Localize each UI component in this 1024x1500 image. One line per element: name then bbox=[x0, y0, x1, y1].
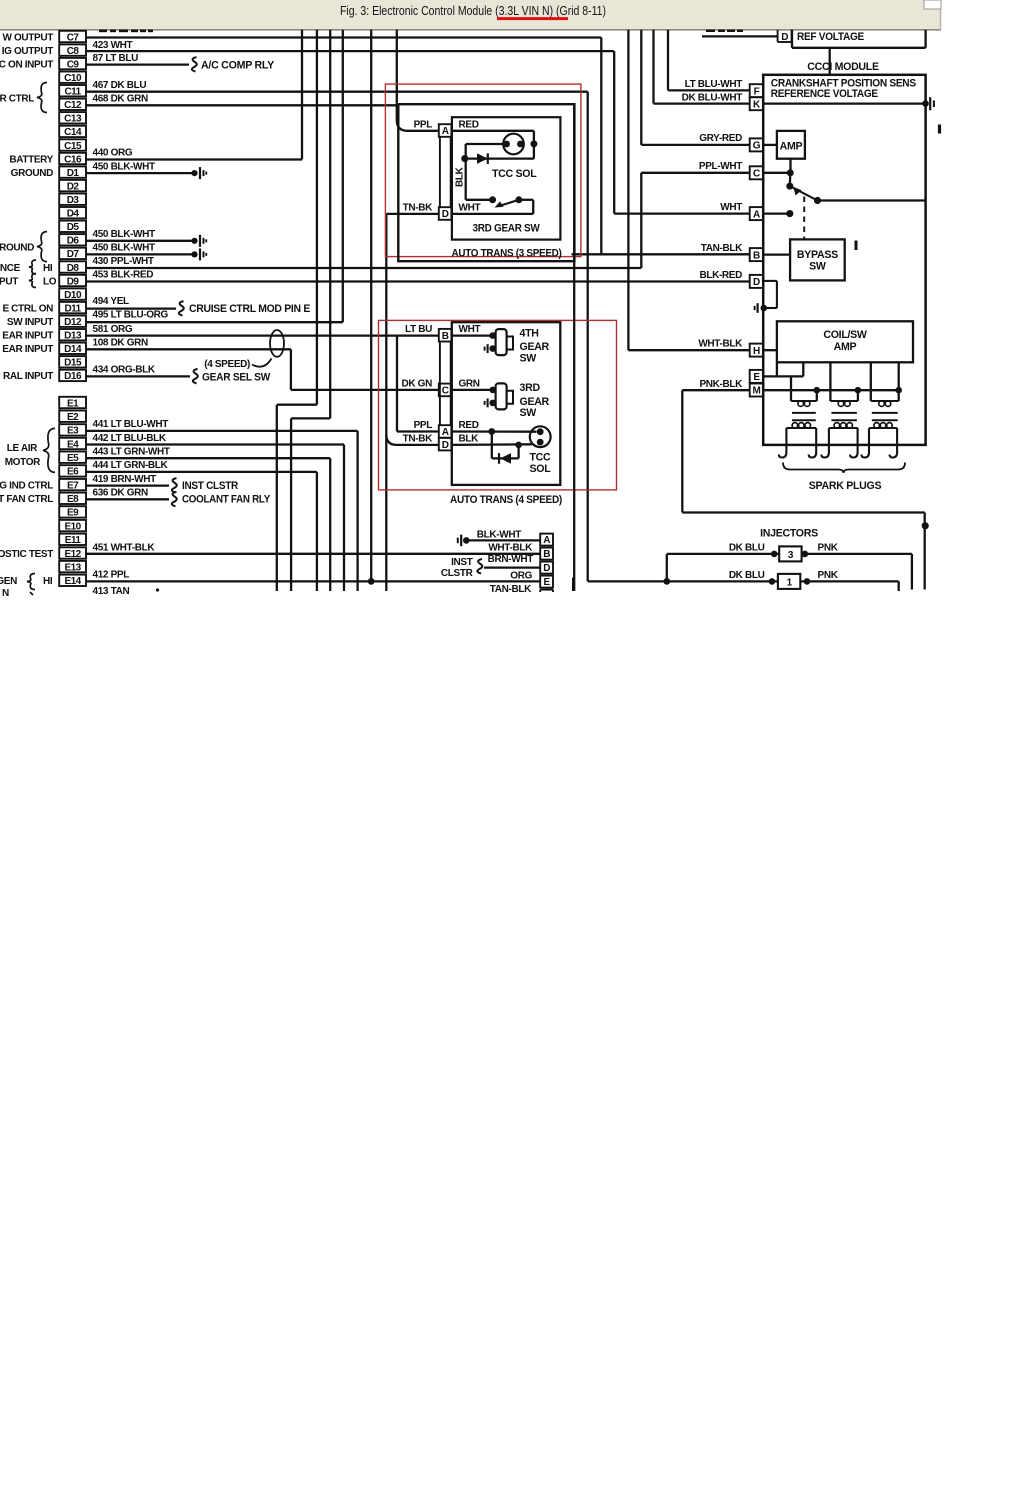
svg-text:RAL INPUT: RAL INPUT bbox=[3, 371, 53, 382]
svg-text:C10: C10 bbox=[64, 73, 82, 84]
pin E wire + tab under coil amp bbox=[763, 375, 803, 377]
vertical x682.3 injector feed bbox=[681, 390, 683, 512]
TCC SOL terminals bbox=[503, 141, 510, 148]
svg-text:B: B bbox=[753, 250, 760, 261]
vertical x276.8 lower bbox=[276, 405, 278, 591]
svg-text:TN-BK: TN-BK bbox=[403, 434, 433, 445]
svg-text:C12: C12 bbox=[64, 100, 82, 111]
svg-text:WHT-BLK: WHT-BLK bbox=[488, 543, 533, 554]
bottom-cut brace fragment bbox=[30, 592, 33, 595]
long vertical x371.2 top to E14 splice bbox=[370, 30, 372, 582]
switch arm to right contact bbox=[790, 186, 818, 200]
coil 2 core lines bbox=[831, 412, 857, 414]
ECM connector pin E3 bbox=[59, 424, 86, 435]
pin D box (4 speed) bbox=[439, 438, 452, 451]
wire vertical x342.8 (to top cut) bbox=[342, 30, 344, 322]
wire TAN-BLK into CCCI pin B bbox=[572, 253, 750, 255]
vertical x641.3 GRY-RED from top bbox=[640, 30, 642, 145]
wire WHT into CCCI pin A bbox=[614, 212, 750, 214]
svg-text:C11: C11 bbox=[64, 87, 81, 98]
svg-text:E4: E4 bbox=[67, 439, 79, 450]
svg-text:E9: E9 bbox=[67, 508, 79, 519]
pin B box (4 speed) bbox=[439, 329, 452, 342]
ECM connector pin D16 bbox=[59, 370, 86, 381]
ECM connector pin D10 bbox=[59, 288, 86, 299]
svg-text:PPL-WHT: PPL-WHT bbox=[699, 161, 742, 172]
svg-text:TAN-BLK: TAN-BLK bbox=[490, 584, 532, 595]
connector outline tick bbox=[59, 124, 61, 126]
connector outline tick bbox=[59, 477, 61, 479]
connector outline tick bbox=[59, 449, 61, 451]
diode (4 speed, pointing left) bbox=[500, 453, 511, 464]
svg-text:REF VOLTAGE: REF VOLTAGE bbox=[797, 31, 864, 43]
svg-text:R CTRL: R CTRL bbox=[0, 93, 34, 104]
svg-text:WHT-BLK: WHT-BLK bbox=[698, 339, 743, 350]
ECM connector pin D4 bbox=[59, 207, 86, 218]
pin H box bbox=[750, 344, 763, 357]
svg-text:D5: D5 bbox=[67, 222, 80, 233]
svg-text:BLK-WHT: BLK-WHT bbox=[477, 529, 521, 540]
connector outline tick bbox=[59, 137, 61, 139]
connector outline tick bbox=[59, 504, 61, 506]
svg-text:M: M bbox=[752, 386, 760, 397]
coil 3 spark plug wires bbox=[868, 428, 870, 445]
svg-text:BATTERY: BATTERY bbox=[9, 154, 53, 165]
svg-text:SW: SW bbox=[520, 352, 537, 364]
coil 2 secondary winding bbox=[829, 427, 858, 429]
injector 1 wire bbox=[588, 580, 778, 582]
svg-text:COIL/SW: COIL/SW bbox=[823, 329, 867, 341]
svg-text:LE AIR: LE AIR bbox=[7, 443, 38, 454]
svg-text:F: F bbox=[754, 86, 760, 97]
svg-text:C14: C14 bbox=[64, 127, 82, 138]
3rd gear switch symbol (4 speed) bbox=[489, 387, 496, 394]
svg-text:D3: D3 bbox=[67, 195, 80, 206]
connector outline tick bbox=[59, 178, 61, 180]
svg-text:RED: RED bbox=[459, 420, 479, 431]
connector outline tick bbox=[59, 110, 61, 112]
ECM connector pin D7 bbox=[59, 248, 86, 259]
ECM connector pin D8 bbox=[59, 261, 86, 272]
svg-text:GEAR: GEAR bbox=[520, 396, 550, 408]
svg-text:HI: HI bbox=[43, 576, 53, 587]
BYPASS SW box bbox=[790, 239, 845, 280]
ECM connector pin E7 bbox=[59, 479, 86, 490]
svg-text:BYPASS: BYPASS bbox=[797, 249, 838, 261]
svg-text:467 DK BLU: 467 DK BLU bbox=[93, 80, 147, 91]
ground at pin D jog bbox=[761, 305, 768, 312]
wire TN-BK into pin D (3 speed) bbox=[386, 213, 439, 215]
injector 3 right drop bbox=[911, 554, 913, 590]
ECM connector pin E12 bbox=[59, 547, 86, 558]
spark plugs brace bbox=[783, 463, 905, 474]
svg-text:D2: D2 bbox=[67, 181, 80, 192]
ECM connector pin C9 bbox=[59, 58, 86, 69]
title bar bbox=[0, 0, 941, 30]
svg-text:E10: E10 bbox=[64, 521, 81, 532]
wire G to AMP bbox=[763, 144, 777, 146]
TCC SOL circle (4 speed) bbox=[530, 426, 551, 447]
svg-text:453 BLK-RED: 453 BLK-RED bbox=[93, 270, 154, 281]
vertical x397 LT BU tee down to PPL bbox=[396, 336, 398, 432]
svg-text:COOLANT FAN RLY: COOLANT FAN RLY bbox=[182, 494, 270, 506]
long vertical x628.4 -> pin H bbox=[627, 30, 629, 350]
jog horizontal y404.7 bbox=[277, 404, 317, 406]
inst clstr pin D box bbox=[540, 562, 553, 574]
ECM connector pin E4 bbox=[59, 438, 86, 449]
svg-text:B: B bbox=[543, 549, 550, 560]
REF VOLTAGE module box (cut at top) bbox=[791, 30, 793, 48]
svg-text:BLK: BLK bbox=[455, 166, 466, 187]
wire pin A to terminal dot bbox=[763, 212, 790, 214]
svg-text:CCCI MODULE: CCCI MODULE bbox=[807, 61, 879, 73]
svg-text:GRN: GRN bbox=[459, 378, 480, 389]
wire vertical x641 PPL-WHT bbox=[640, 173, 642, 268]
pin K box bbox=[750, 97, 763, 110]
diode (3 speed) bbox=[477, 153, 488, 164]
svg-text:E14: E14 bbox=[64, 576, 81, 587]
cut-off label fragment near REF VOLTAGE bbox=[706, 30, 715, 32]
svg-text:450 BLK-WHT: 450 BLK-WHT bbox=[93, 242, 156, 253]
CCCI module box bbox=[763, 75, 925, 445]
svg-text:AUTO TRANS (3 SPEED): AUTO TRANS (3 SPEED) bbox=[452, 247, 562, 259]
svg-text:D10: D10 bbox=[64, 290, 82, 301]
link to switch pivot bbox=[789, 173, 792, 186]
connector outline tick bbox=[59, 422, 61, 424]
curve branch into 4-speed pin D bbox=[386, 435, 439, 445]
connector outline tick bbox=[59, 83, 61, 85]
junction dot left (3 speed) bbox=[461, 155, 468, 162]
svg-text:C16: C16 bbox=[64, 154, 82, 165]
connector outline tick bbox=[59, 191, 61, 193]
3rd gear switch row bbox=[466, 199, 493, 201]
ECM connector pin C8 bbox=[59, 44, 86, 55]
svg-text:GRY-RED: GRY-RED bbox=[699, 133, 742, 144]
coil 3 secondary winding bbox=[869, 427, 897, 429]
vertical x668 LT BLU-WHT from top bbox=[667, 30, 669, 91]
svg-text:ORG: ORG bbox=[510, 570, 532, 581]
svg-text:C8: C8 bbox=[67, 46, 80, 57]
svg-text:D8: D8 bbox=[67, 263, 80, 274]
svg-text:D: D bbox=[781, 32, 788, 43]
svg-text:3RD: 3RD bbox=[520, 382, 541, 394]
svg-text:D7: D7 bbox=[67, 249, 80, 260]
svg-text:A: A bbox=[543, 535, 550, 546]
switch arm with arrowhead bbox=[500, 200, 519, 206]
pin A box (3 speed) bbox=[439, 124, 452, 137]
svg-text:581 ORG: 581 ORG bbox=[93, 324, 133, 335]
svg-text:DK BLU: DK BLU bbox=[729, 570, 765, 581]
svg-text:D12: D12 bbox=[64, 317, 82, 328]
svg-text:HI: HI bbox=[43, 263, 53, 274]
dashed link to BYPASS SW bbox=[803, 197, 805, 240]
connector outline tick bbox=[59, 545, 61, 547]
svg-text:WHT: WHT bbox=[459, 202, 481, 213]
svg-text:G IND CTRL: G IND CTRL bbox=[0, 480, 53, 491]
svg-text:REFERENCE VOLTAGE: REFERENCE VOLTAGE bbox=[771, 88, 878, 100]
svg-text:TCC SOL: TCC SOL bbox=[492, 168, 537, 180]
svg-text:TAN-BLK: TAN-BLK bbox=[701, 243, 743, 254]
inst clstr pin E box bbox=[540, 576, 553, 588]
wire into REF pin D (cut) bbox=[702, 35, 778, 37]
inner box 3rd gear sw assembly bbox=[452, 117, 561, 239]
svg-text:LO: LO bbox=[43, 276, 57, 287]
ground mark at 3rd gear sw bbox=[487, 399, 489, 408]
wire pin H into coil amp bbox=[763, 349, 777, 351]
svg-text:C: C bbox=[753, 169, 760, 180]
outer box auto trans 3 speed bbox=[398, 104, 574, 261]
pin C box (4 speed) bbox=[439, 384, 452, 397]
connector outline tick bbox=[59, 151, 61, 153]
coil 3 primary return + feed vertical bbox=[898, 362, 900, 401]
injector 1 box bbox=[778, 574, 800, 589]
coil 2 spark plug wires bbox=[828, 428, 830, 445]
ECM connector pin E11 bbox=[59, 534, 86, 545]
svg-text:E: E bbox=[544, 577, 551, 588]
svg-text:INJECTORS: INJECTORS bbox=[760, 527, 818, 539]
svg-text:E8: E8 bbox=[67, 494, 79, 505]
connector outline tick bbox=[59, 408, 61, 410]
internal ground line from pin K to right edge bbox=[763, 102, 923, 104]
ECM connector pin E5 bbox=[59, 452, 86, 463]
svg-text:WHT: WHT bbox=[459, 324, 481, 335]
injector 3 box bbox=[779, 546, 801, 561]
svg-text:636 DK GRN: 636 DK GRN bbox=[93, 488, 149, 499]
4th gear switch symbol bbox=[489, 332, 496, 339]
ECM connector pin C7 bbox=[59, 31, 86, 42]
connector outline tick bbox=[59, 273, 61, 275]
svg-text:DK GN: DK GN bbox=[402, 378, 433, 389]
ECM connector pin C14 bbox=[59, 126, 86, 137]
ECM connector pin E13 bbox=[59, 561, 86, 572]
long vertical x574.2 (3-speed box edge extension) bbox=[573, 104, 575, 591]
svg-text:WHT: WHT bbox=[720, 202, 742, 213]
AMP box bbox=[777, 131, 805, 159]
svg-text:CRUISE CTRL MOD PIN E: CRUISE CTRL MOD PIN E bbox=[189, 303, 310, 315]
svg-text:A: A bbox=[442, 427, 449, 438]
PPL wire into pin A (4 speed) bbox=[397, 430, 439, 432]
ECM connector pin C15 bbox=[59, 139, 86, 150]
svg-text:3RD GEAR SW: 3RD GEAR SW bbox=[473, 223, 540, 235]
pin A box (4 speed) bbox=[439, 425, 452, 438]
vertical x291.1 lower bbox=[290, 418, 292, 591]
wire from switch contact to right edge bbox=[818, 199, 926, 201]
svg-text:C13: C13 bbox=[64, 114, 82, 125]
svg-text:PPL: PPL bbox=[414, 420, 433, 431]
ECM connector pin E10 bbox=[59, 520, 86, 531]
svg-text:E2: E2 bbox=[67, 412, 79, 423]
svg-text:PPL: PPL bbox=[414, 119, 433, 130]
link line REF box to CCCI top bbox=[829, 48, 831, 75]
AMP output to switch bbox=[789, 159, 791, 173]
ignition coil 3 primary winding bbox=[871, 400, 899, 402]
svg-text:BLK: BLK bbox=[459, 434, 480, 445]
connector outline tick bbox=[59, 531, 61, 533]
svg-text:C7: C7 bbox=[67, 32, 80, 43]
long vertical x386.3 TN-BK bus bbox=[385, 214, 387, 591]
ECM connector pin D5 bbox=[59, 221, 86, 232]
svg-text:441 LT BLU-WHT: 441 LT BLU-WHT bbox=[93, 419, 169, 430]
COIL/SW AMP box bbox=[777, 321, 913, 362]
injector 3 wire bbox=[667, 553, 779, 555]
svg-text:AMP: AMP bbox=[780, 140, 803, 152]
pin D ground jog bbox=[763, 280, 777, 282]
coil 1 primary feed from E-tab bbox=[790, 376, 792, 401]
svg-text:412 PPL: 412 PPL bbox=[93, 570, 130, 581]
svg-text:PNK: PNK bbox=[818, 542, 839, 553]
pin D box REF VOLTAGE bbox=[777, 30, 779, 42]
svg-text:430 PPL-WHT: 430 PPL-WHT bbox=[93, 256, 154, 267]
ECM connector pin D15 bbox=[59, 356, 86, 367]
connector outline tick bbox=[59, 340, 61, 342]
svg-text:C: C bbox=[442, 386, 449, 397]
coil 3 core lines bbox=[872, 412, 898, 414]
pin D box (CCCI) bbox=[750, 275, 763, 288]
svg-text:D9: D9 bbox=[67, 276, 80, 287]
ECM connector pin D1 bbox=[59, 166, 86, 177]
svg-text:D: D bbox=[442, 440, 449, 451]
pin A box bbox=[750, 207, 763, 220]
wire vertical x330.2 lower bbox=[329, 458, 331, 591]
connector outline tick bbox=[59, 232, 61, 234]
vertical x653.5 DK BLU-WHT from top bbox=[652, 30, 654, 104]
svg-text:D: D bbox=[753, 277, 760, 288]
wire C7 437 -> TAN-BLK pin B route bbox=[86, 36, 601, 38]
svg-text:MOTOR: MOTOR bbox=[5, 457, 41, 468]
ground mark at 4th gear sw bbox=[487, 344, 489, 353]
svg-text:A: A bbox=[753, 209, 760, 220]
connector outline tick bbox=[59, 42, 61, 44]
svg-text:442 LT BLU-BLK: 442 LT BLU-BLK bbox=[93, 433, 167, 444]
svg-text:ROUND: ROUND bbox=[0, 242, 34, 253]
svg-text:SW: SW bbox=[520, 407, 537, 419]
connector outline tick bbox=[59, 559, 61, 561]
inst clstr pin B box bbox=[540, 548, 553, 560]
coil 1 spark plug wires bbox=[785, 428, 787, 445]
ground at CCCI right edge bbox=[922, 100, 929, 107]
connector outline tick bbox=[59, 300, 61, 302]
ignition coil 2 primary winding bbox=[830, 400, 858, 402]
wire LT BLU-WHT into pin F bbox=[668, 89, 750, 91]
svg-text:B: B bbox=[442, 331, 449, 342]
svg-text:468 DK GRN: 468 DK GRN bbox=[93, 94, 149, 105]
ECM connector pin C16 bbox=[59, 153, 86, 164]
svg-text:LT BLU-WHT: LT BLU-WHT bbox=[685, 79, 743, 90]
inst clstr cut pin box stub bbox=[539, 590, 541, 592]
svg-text:T FAN CTRL: T FAN CTRL bbox=[0, 494, 53, 505]
ECM connector pin D2 bbox=[59, 180, 86, 191]
svg-text:D6: D6 bbox=[67, 236, 80, 247]
svg-text:419 BRN-WHT: 419 BRN-WHT bbox=[93, 474, 157, 485]
svg-text:W OUTPUT: W OUTPUT bbox=[2, 32, 53, 43]
pin C box bbox=[750, 166, 763, 179]
stray mark I mid bbox=[855, 241, 858, 251]
connector outline tick bbox=[59, 286, 61, 288]
wire WHT-BLK into CCCI pin H bbox=[628, 349, 749, 351]
connector outline tick bbox=[59, 327, 61, 329]
svg-text:E12: E12 bbox=[64, 549, 81, 560]
svg-text:INST CLSTR: INST CLSTR bbox=[182, 480, 239, 492]
svg-text:NCE: NCE bbox=[0, 263, 21, 274]
ECM connector pin E9 bbox=[59, 506, 86, 517]
loop ellipse around D13/D14 wires bbox=[270, 330, 284, 357]
svg-text:GROUND: GROUND bbox=[11, 168, 53, 179]
stray mark I right edge bbox=[938, 125, 941, 134]
svg-text:443 LT GRN-WHT: 443 LT GRN-WHT bbox=[93, 447, 170, 458]
connector outline tick bbox=[59, 56, 61, 58]
wire pin C to junction bbox=[763, 172, 790, 174]
ECM connector pin D9 bbox=[59, 275, 86, 286]
svg-text:87 LT BLU: 87 LT BLU bbox=[93, 53, 139, 64]
wire vertical x344 bbox=[343, 445, 345, 592]
svg-text:108 DK GRN: 108 DK GRN bbox=[93, 338, 149, 349]
ignition coil 1 primary winding bbox=[791, 400, 817, 402]
svg-text:D14: D14 bbox=[64, 344, 82, 355]
wire DK GN into 4-speed pin C bbox=[291, 389, 439, 391]
svg-text:E13: E13 bbox=[64, 562, 81, 573]
switch to WHT corner bbox=[519, 199, 533, 201]
svg-text:PNK: PNK bbox=[818, 570, 839, 581]
diode line (3 speed) bbox=[466, 157, 534, 159]
svg-text:D11: D11 bbox=[64, 303, 81, 314]
splice dot on E14 wire bbox=[368, 578, 375, 585]
svg-text:CLSTR: CLSTR bbox=[441, 568, 474, 579]
wire vertical x587.7 bbox=[587, 92, 589, 582]
coil 1 primary return to M bus bbox=[816, 390, 818, 401]
svg-text:C15: C15 bbox=[64, 141, 82, 152]
pin D box (3 speed) bbox=[439, 207, 452, 220]
ECM connector pin E2 bbox=[59, 411, 86, 422]
pin M box bbox=[750, 384, 763, 397]
connector outline tick bbox=[59, 96, 61, 98]
svg-text:LT BU: LT BU bbox=[405, 324, 432, 335]
pin E box bbox=[750, 370, 763, 383]
svg-text:413 TAN: 413 TAN bbox=[93, 586, 130, 597]
svg-text:IG OUTPUT: IG OUTPUT bbox=[2, 46, 54, 57]
svg-text:INST: INST bbox=[451, 557, 473, 568]
svg-text:D13: D13 bbox=[64, 331, 82, 342]
svg-text:E: E bbox=[753, 372, 760, 383]
vertical to TCC SOL right node bbox=[533, 131, 535, 159]
wire vertical x357.6 bbox=[356, 431, 358, 591]
red underline bbox=[497, 17, 568, 20]
jog horizontal y418.4 bbox=[291, 417, 330, 419]
PPL vertical x396.8 curving into 3-speed pin A bbox=[397, 30, 439, 131]
svg-text:450 BLK-WHT: 450 BLK-WHT bbox=[93, 161, 156, 172]
connector outline tick bbox=[59, 69, 61, 71]
svg-text:C9: C9 bbox=[67, 59, 80, 70]
connector outline tick bbox=[59, 164, 61, 166]
wire GRY-RED into pin G bbox=[641, 144, 749, 146]
ECM connector pin E14 bbox=[59, 575, 86, 586]
wire DK BLU-WHT into pin K bbox=[654, 102, 750, 104]
svg-text:423 WHT: 423 WHT bbox=[93, 40, 133, 51]
connector outline tick bbox=[59, 246, 61, 248]
svg-text:GEAR: GEAR bbox=[520, 341, 550, 353]
short vertical near inst clstr (cut) bbox=[572, 578, 574, 592]
svg-text:E5: E5 bbox=[67, 453, 79, 464]
stray period mark bbox=[156, 588, 159, 591]
ECM connector pin D3 bbox=[59, 194, 86, 205]
svg-text:440 ORG: 440 ORG bbox=[93, 147, 133, 158]
long vertical x330.2 upper with jog bbox=[329, 30, 331, 419]
ECM connector pin C11 bbox=[59, 85, 86, 96]
svg-text:E3: E3 bbox=[67, 426, 79, 437]
svg-text:E CTRL ON: E CTRL ON bbox=[2, 303, 53, 314]
connector outline tick bbox=[59, 218, 61, 220]
connector strip A-D (3 speed) bbox=[439, 137, 441, 207]
connector outline tick bbox=[59, 259, 61, 261]
